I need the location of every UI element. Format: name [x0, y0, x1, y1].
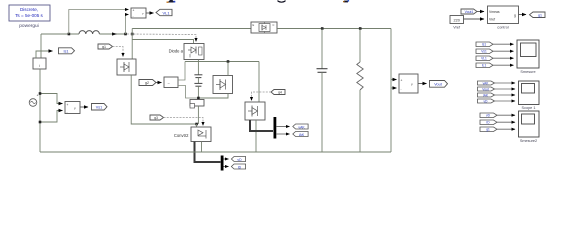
wire: left vertical from bus to current measure: [40, 34, 42, 58]
scope 2: [519, 81, 540, 110]
goto tag VL1: [156, 9, 172, 15]
Convtr-a block: [184, 44, 204, 60]
wire: gate to IGBT1: [113, 47, 124, 57]
wire: gate dashed to Convtr-a: [127, 34, 196, 42]
wire: gate into Diode2: [252, 92, 272, 101]
svg-text:+: +: [37, 94, 39, 98]
wire: Convtr2 bottom to bus: [201, 142, 203, 153]
wire: gate to Convtr2: [164, 118, 204, 126]
wire: bus after inductor: [99, 33, 127, 35]
svg-text:powergui: powergui: [19, 23, 38, 29]
svg-text:Discrete,: Discrete,: [20, 7, 38, 12]
svg-text:VL1: VL1: [162, 10, 170, 15]
Diode2 block: [245, 102, 265, 120]
thick meas line Diode2: [250, 120, 273, 131]
from tag iAK: [478, 93, 495, 97]
svg-text:220: 220: [454, 18, 460, 22]
svg-text:Vout1: Vout1: [465, 10, 474, 14]
svg-text:E: E: [253, 23, 255, 27]
svg-text:vD: vD: [484, 99, 489, 103]
svg-text:Vref: Vref: [489, 18, 495, 22]
svg-text:control: control: [497, 26, 509, 30]
Vs measurement block: [65, 102, 80, 115]
from tag Vs1: [476, 49, 493, 54]
caption text fragments (cut-off title line at top): [167, 0, 350, 3]
wire: rail y=39.5 to Convtr-a: [132, 40, 193, 44]
svg-text:vAK: vAK: [298, 125, 305, 129]
goto tag g: [530, 12, 546, 18]
svg-text:g3: g3: [154, 116, 158, 120]
thick meas line Convtr2: [195, 142, 221, 163]
from tag Vout2: [478, 87, 495, 91]
svg-text:iAK: iAK: [483, 93, 489, 97]
demux outputs: [276, 126, 289, 128]
svg-text:+: +: [133, 9, 135, 13]
powergui block: [9, 5, 50, 29]
svg-text:Vs1: Vs1: [481, 50, 487, 54]
wire: node down into Convtr2: [196, 124, 198, 127]
current measurement block (source branch): [33, 58, 46, 69]
svg-text:g4: g4: [278, 91, 282, 95]
wire: NOT out2 down: [178, 86, 198, 99]
from tag IL1: [476, 63, 493, 68]
goto tag Vout: [430, 81, 448, 88]
wire: NOT out1 up: [178, 62, 185, 81]
svg-text:g1: g1: [538, 14, 542, 18]
goto tag Vc2: [231, 157, 245, 162]
voltage measurement VL block: [131, 8, 146, 18]
wire: small block to Convtr2 node: [197, 106, 199, 124]
goto tag Vs: [92, 104, 108, 111]
wire: riser x=132 junction: [131, 33, 134, 36]
from tag Is1: [476, 42, 493, 47]
from tag g (for IGBT1): [98, 44, 113, 49]
svg-text:Is1: Is1: [63, 50, 68, 54]
svg-text:Convtr2: Convtr2: [174, 133, 189, 138]
svg-text:vD: vD: [486, 114, 491, 118]
wire: mid block top: [227, 62, 229, 76]
svg-text:Smesure2: Smesure2: [520, 139, 537, 143]
Convtr2 block: [191, 127, 211, 142]
svg-text:iD: iD: [238, 165, 242, 169]
svg-text:Smesure: Smesure: [520, 70, 535, 74]
svg-text:Vs1: Vs1: [96, 106, 103, 110]
svg-text:Vref: Vref: [453, 26, 461, 30]
wire: mid block bottom to cap bottom node: [198, 94, 228, 99]
control block: [488, 6, 519, 30]
scope 3: [519, 111, 540, 143]
inductor L: [79, 31, 99, 34]
NOT gate driver: from tag: [139, 80, 156, 86]
Vout measurement block: [399, 74, 418, 93]
svg-text:g2: g2: [145, 81, 149, 85]
Vs measurement taps: [40, 94, 63, 104]
svg-text:-: -: [67, 110, 68, 114]
svg-text:Vmeas: Vmeas: [489, 10, 500, 14]
svg-text:-: -: [133, 14, 134, 18]
goto tag Is: [59, 48, 75, 54]
from tag vD: [478, 99, 495, 103]
wire: vertical to top rail and IGBT1 top: [131, 29, 133, 60]
svg-text:IL1: IL1: [482, 64, 487, 68]
svg-text:Vout: Vout: [482, 87, 488, 91]
svg-text:Ts = 5e-005 s: Ts = 5e-005 s: [15, 13, 43, 18]
svg-text:vAK: vAK: [483, 81, 490, 85]
bottom bus: [40, 151, 391, 153]
series switch block on top rail: [251, 22, 277, 33]
wire: top rail to output: [277, 28, 391, 30]
wire into NOT block: [156, 82, 162, 84]
mid diode/IGBT block: [213, 76, 233, 94]
svg-text:g1: g1: [102, 45, 106, 49]
from tag g3 (Convtr2 gate): [150, 115, 164, 120]
svg-text:Diode a: Diode a: [169, 49, 184, 54]
svg-text:+: +: [401, 79, 403, 83]
scope 1: [517, 40, 539, 74]
svg-text:-: -: [401, 87, 402, 91]
wire: IGBT1 emitter down and right to Convtr2 node: [131, 75, 196, 124]
load resistor: [359, 29, 361, 63]
svg-text:Scope 1: Scope 1: [522, 106, 536, 110]
wire to Is goto: [36, 51, 53, 58]
AC source symbol: [29, 94, 38, 107]
from tag vD1: [478, 81, 495, 85]
svg-text:iAK: iAK: [299, 133, 305, 137]
wire: VL tap right riser: [126, 15, 129, 35]
node line y=61.5: [185, 61, 259, 63]
svg-text:Is1: Is1: [482, 43, 486, 47]
wire: top rail y=28.5: [132, 28, 251, 30]
from tag g1: [480, 127, 497, 132]
IGBT1 block: [117, 59, 136, 75]
svg-text:g1: g1: [486, 128, 490, 132]
goto tag vAK: [293, 124, 308, 129]
right vertical: [390, 29, 392, 153]
node left inductor tap: [68, 33, 71, 36]
wire: top bus left segment: [41, 33, 79, 35]
svg-text:+: +: [67, 103, 69, 107]
svg-text:VL1: VL1: [481, 57, 487, 61]
demux out to tags: [224, 158, 229, 160]
wire: source branch vertical: [39, 69, 41, 152]
DC link capacitors column: [197, 62, 199, 75]
Vout measurement taps: [391, 79, 397, 81]
wire: VL tap left riser: [69, 10, 129, 35]
wire: VL block to goto: [146, 12, 154, 14]
goto tag Ic2: [231, 164, 245, 169]
node after inductor: [124, 33, 127, 36]
constant block 220: [450, 16, 464, 30]
from tag Vout1: [461, 9, 477, 14]
small series block below caps: [190, 100, 204, 109]
demux bar (Convtr2): [221, 156, 224, 171]
from tag VL1: [476, 56, 493, 61]
wire to Vout goto: [418, 83, 427, 85]
demux bar (Diode2): [274, 117, 277, 139]
svg-text:g: g: [514, 14, 516, 18]
NOT block: [164, 77, 178, 88]
wire: node to Diode2: [258, 62, 260, 103]
from tag iD: [480, 120, 497, 125]
svg-text:C: C: [273, 23, 275, 27]
wire to Vs goto: [80, 106, 88, 108]
svg-text:Vout: Vout: [434, 83, 443, 87]
svg-text:vD: vD: [237, 158, 242, 162]
output capacitor: [321, 29, 323, 69]
goto tag iAK: [293, 132, 308, 137]
from tag g4 (Diode2 gate): [271, 90, 285, 95]
from tag vD2: [480, 113, 497, 118]
wire: Diode2 bottom to bus: [255, 120, 257, 152]
